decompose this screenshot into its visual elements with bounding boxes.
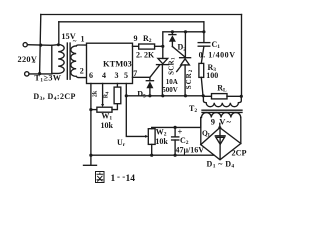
- wire outer top rail: [41, 14, 242, 16]
- wire pin 3 to R4: [116, 84, 118, 88]
- svg-text:KTM03: KTM03: [103, 59, 132, 69]
- gate of SCR2: [177, 65, 182, 71]
- wire outer rail left drop to 220V bottom lead: [40, 15, 41, 74]
- resistor R2: [139, 44, 155, 49]
- svg-text:9 V~: 9 V~: [211, 117, 232, 127]
- svg-text:7: 7: [133, 69, 137, 78]
- svg-text:47μ/16V: 47μ/16V: [176, 146, 205, 155]
- svg-text:R4: R4: [103, 91, 109, 98]
- junction D2 wire / C1 column: [202, 30, 205, 33]
- svg-text:+: +: [178, 127, 183, 137]
- junction inner rail drop / primary top: [57, 43, 60, 46]
- wire T1 secondary bottom to pin 2: [76, 76, 86, 77]
- input terminal 220V top: [23, 43, 27, 47]
- wire bottom rail: [91, 154, 214, 156]
- wire SCR1 anode up and top link to C1 column: [163, 32, 204, 47]
- transformer T2 secondary winding: [202, 113, 241, 118]
- transformer T1 secondary winding: [71, 46, 76, 76]
- wire T1 secondary top to pin 1: [76, 44, 86, 47]
- svg-text:~: ~: [73, 38, 77, 46]
- junction SCR2 anode top: [184, 30, 187, 33]
- wire T2 secondary left to bridge left corner: [200, 118, 202, 145]
- svg-text:T1≥3W: T1≥3W: [34, 74, 61, 84]
- junction C2 top: [174, 126, 177, 129]
- junction bus / C1R3 column: [202, 94, 205, 97]
- wire pin 7 to D5: [133, 77, 150, 80]
- svg-text:2CP: 2CP: [232, 148, 247, 157]
- resistor R3: [199, 63, 204, 77]
- wire 220V bottom lead: [29, 73, 52, 75]
- wire cathode bus: [126, 95, 203, 97]
- svg-text:6: 6: [89, 71, 93, 80]
- diode D2: [171, 32, 173, 34]
- wire 220V top lead: [27, 44, 58, 47]
- transformer T2 core: [202, 110, 242, 112]
- transformer T2 primary winding: [203, 96, 241, 106]
- bridge internal diode: [219, 129, 221, 136]
- resistor RL: [203, 95, 211, 97]
- wire R2 to SCR1 anode: [155, 45, 163, 47]
- svg-text:~: ~: [32, 59, 36, 67]
- rectifier bridge QL diamond: [201, 128, 241, 160]
- junction C2 bottom / bottom rail: [174, 154, 177, 157]
- junction bridge top corner: [218, 126, 221, 129]
- junction D2 top: [171, 30, 174, 33]
- svg-text:0. 1/400V: 0. 1/400V: [199, 51, 236, 60]
- thyristor SCR2: [184, 32, 186, 58]
- junction W2 top wire / T2 left column: [200, 118, 202, 128]
- capacitor C1: [198, 42, 210, 44]
- junction SCR1 / bus: [161, 94, 164, 97]
- wire pin 9 to R2: [133, 45, 139, 47]
- svg-text:14: 14: [126, 174, 136, 184]
- IC U1 KTM03 body: [87, 43, 133, 83]
- svg-text:100: 100: [206, 71, 218, 80]
- svg-text:500V: 500V: [162, 86, 178, 94]
- thyristor SCR1: [162, 46, 164, 58]
- svg-text:1: 1: [81, 35, 85, 44]
- svg-text:10k: 10k: [155, 137, 168, 146]
- svg-text:- -: - -: [117, 172, 125, 182]
- caption 图 glyph: [96, 172, 105, 183]
- junction R2 / SCR1 anode: [161, 45, 164, 48]
- gate of SCR1: [150, 65, 159, 77]
- svg-text:4: 4: [102, 71, 106, 80]
- potentiometer W2: [148, 129, 155, 145]
- junction pin6 / bottom rail: [89, 154, 92, 157]
- svg-text:9: 9: [134, 34, 138, 43]
- arrow into W2 wiper: [145, 135, 148, 138]
- wire inner top rail: [59, 21, 204, 23]
- wire pin 5 down to W2 wiper: [126, 84, 145, 137]
- diode D5: [146, 80, 153, 82]
- capacitor C2: [174, 127, 176, 136]
- wire T2 secondary right to bridge right corner: [240, 118, 242, 144]
- junction crossing 220V top lead: [39, 44, 42, 47]
- junction pin6 / W1 left: [89, 108, 92, 111]
- wire right side rail drop: [241, 15, 243, 97]
- junction W2 bottom / bottom rail: [150, 154, 153, 157]
- svg-text:2: 2: [80, 67, 84, 76]
- wire pin 4 to W1 wiper (arrow): [102, 84, 104, 105]
- junction pin5 column / bus: [125, 94, 128, 97]
- svg-text:10k: 10k: [101, 121, 114, 130]
- input terminal 220V bottom: [25, 72, 29, 76]
- junction RL right / rail: [240, 95, 243, 98]
- svg-text:3: 3: [115, 71, 119, 80]
- svg-text:1: 1: [111, 174, 116, 184]
- ground: [84, 164, 97, 166]
- svg-text:D1 ~ D4: D1 ~ D4: [207, 160, 235, 170]
- transformer T1 core: [67, 43, 70, 79]
- svg-text:5: 5: [124, 71, 128, 80]
- svg-text:2k: 2k: [93, 90, 99, 97]
- wire C1 column from inner rail: [203, 22, 205, 43]
- svg-text:10A: 10A: [166, 78, 178, 86]
- svg-text:2. 2K: 2. 2K: [136, 51, 155, 60]
- wire stub to bridge top corner: [219, 123, 221, 127]
- wire inner rail left drop: [58, 22, 60, 45]
- wire D2 anode to SCR2 anode (diagonal): [172, 47, 185, 58]
- potentiometer W1: [91, 109, 97, 111]
- resistor R4: [114, 87, 121, 104]
- junction SCR2 / bus: [184, 94, 187, 97]
- junction D5 / bus: [148, 94, 151, 97]
- transformer T1 primary winding: [52, 44, 64, 73]
- wire pin 6 down to ground: [90, 84, 92, 165]
- junction outer rail drop / 220V bottom lead: [38, 72, 41, 75]
